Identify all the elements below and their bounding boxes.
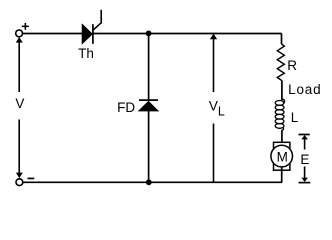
wire bottom rail [23,181,282,183]
terminal - (negative input terminal) [16,179,23,186]
label minus [28,178,35,180]
svg-text:Load: Load [288,82,321,97]
svg-text:R: R [287,58,297,73]
svg-text:E: E [300,152,309,167]
svg-text:L: L [291,110,299,125]
wire motor to bottom rail [281,167,283,183]
diode FD (freewheeling, cathode bar on top, triangle pointing up) [139,100,158,111]
wire (top, cathode to right corner) [93,33,282,35]
motor M (rect + circle) [271,142,293,170]
svg-text:FD: FD [117,100,135,115]
terminal + (positive input terminal) [16,30,23,37]
E dimension arrow (back-EMF) [299,135,311,183]
inductor L (coil loops) [275,97,284,132]
node junction bottom (dot) [146,179,152,185]
wire right vertical (top corner down to resistor) [281,34,283,45]
VL measurement arrow (load voltage) [210,34,217,183]
thyristor Th [82,10,101,44]
wire inductor to motor [281,131,283,146]
svg-text:M: M [277,149,288,164]
resistor R (zigzag) [277,44,284,81]
wire between resistor and inductor [281,81,283,101]
label + [22,23,29,30]
wire FD branch lower [148,110,150,182]
wire FD branch upper [148,33,150,100]
svg-text:V: V [15,96,24,111]
svg-text:Th: Th [78,46,94,61]
node junction top (dot) [146,31,152,37]
V measurement arrow (source voltage) [16,37,23,178]
wire anode (top-left horizontal) [23,33,83,35]
